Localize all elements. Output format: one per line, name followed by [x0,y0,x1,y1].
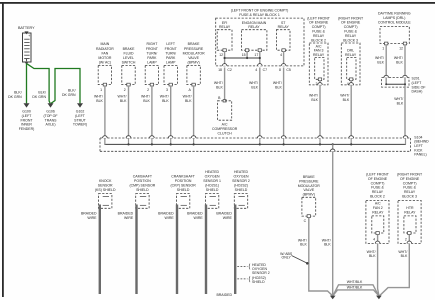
svg-text:WIRE: WIRE [165,216,175,220]
svg-text:CONTROL MODULE: CONTROL MODULE [378,21,412,25]
svg-text:4: 4 [347,82,349,86]
wire stub into S104 at x=193.6 [193,138,195,144]
svg-text:(CMP) SENSOR: (CMP) SENSOR [129,183,155,187]
svg-text:BLK: BLK [396,60,403,64]
svg-text:C5: C5 [286,68,291,72]
svg-text:OF ENGINE: OF ENGINE [309,21,329,25]
wire WHT/BLK DRL pin 12 to splice S201 [404,45,406,76]
svg-text:KNOCK: KNOCK [99,179,112,183]
junction dot on S104 bus at x=193.6 [193,143,195,145]
svg-text:FUSE & RELAY BLOCK 1: FUSE & RELAY BLOCK 1 [239,13,280,17]
svg-text:BRAKE: BRAKE [188,42,201,46]
svg-text:DRL: DRL [347,49,354,53]
svg-text:BLK: BLK [401,254,408,258]
braided wire of heated oxygen sensor 1 (HO2S1) shield [205,205,207,295]
svg-text:BLK: BLK [96,99,103,103]
svg-text:MODULATOR: MODULATOR [183,51,206,55]
connector arc S104 bottom exit [330,149,335,151]
wire WHT/BLK from left front turn/park lamp to splice S104 [170,86,172,136]
svg-text:BLK: BLK [162,99,169,103]
svg-text:15: 15 [242,53,246,57]
svg-text:RIGHT: RIGHT [146,42,158,46]
svg-text:WIRE: WIRE [87,216,97,220]
wire WHT/BLK from lower BPMV to bottom junction [309,218,333,296]
svg-text:18: 18 [218,68,222,72]
svg-text:BLOCK 3: BLOCK 3 [343,38,358,42]
wire stub into S104 at x=128.5 [128,138,130,144]
svg-text:BLK: BLK [216,85,223,89]
junction dot on S104 bus at x=351.2 [350,143,352,145]
svg-text:A/C: A/C [222,123,228,127]
wire WHT/BLK from block 3 to splice S104 [350,81,352,136]
connector arc into S104 at x=170.7 [168,136,173,138]
svg-text:SHIELD: SHIELD [177,188,190,192]
svg-text:8: 8 [279,68,281,72]
svg-text:COMPT): COMPT) [344,25,358,29]
svg-text:LAMP: LAMP [147,61,157,65]
wire stub into S104 at x=170.7 [170,138,172,144]
svg-text:SENSOR 1: SENSOR 1 [203,179,221,183]
connector arc lower block 2 [375,241,380,243]
wire WHT/BLK from lower block 3 to bottom junction [380,234,410,295]
svg-text:SENSOR 2: SENSOR 2 [232,179,250,183]
svg-text:CLUTCH: CLUTCH [217,131,232,135]
svg-text:1: 1 [382,47,384,51]
wire WHT/BLK from lower block 2 to bottom junction [378,234,379,295]
svg-text:4: 4 [373,237,375,241]
wire ENG/IGN MAIN pin 17 down to C7 [259,52,261,65]
svg-text:SHIELD: SHIELD [136,188,149,192]
junction dot on S104 bus at x=151.9 [151,143,153,145]
svg-text:(BPMV): (BPMV) [187,61,199,65]
svg-text:(LEFT FRONT: (LEFT FRONT [366,173,390,177]
svg-text:BLOCK 2: BLOCK 2 [370,195,385,199]
svg-text:OF ENGINE: OF ENGINE [368,177,388,181]
svg-text:PANEL): PANEL) [414,153,426,157]
svg-text:SENSOR: SENSOR [98,183,113,187]
svg-text:RELAY: RELAY [372,190,384,194]
wire stub into S104 at x=151.9 [151,138,153,144]
wire BLK/DK GRN ground strap G106 to G102 [51,69,80,104]
junction dot at EFI wire [224,57,226,59]
connector arc into S104 at x=351.2 [349,136,354,138]
svg-text:SENSOR 2: SENSOR 2 [252,271,270,275]
connector arc lower block 3 [407,241,412,243]
svg-text:MOTOR: MOTOR [98,56,111,60]
svg-text:FAN: FAN [101,51,108,55]
svg-text:2: 2 [405,237,407,241]
svg-text:ONLY: ONLY [282,256,292,260]
svg-text:PARK: PARK [166,56,176,60]
connector arc into S104 at x=320 [318,136,323,138]
svg-text:SHIELD: SHIELD [235,188,248,192]
wire stub into S104 at x=104.9 [104,138,106,144]
wire ST relay pin 4 down to C5 [283,52,285,65]
wire WHT/BLK from C5 to splice S104 [283,68,285,136]
svg-text:RELAY: RELAY [313,34,325,38]
svg-text:+: + [28,34,30,38]
junction dot on S104 bus at x=259.8 [259,143,261,145]
svg-text:FENDER): FENDER) [19,127,35,131]
svg-text:BRAIDED: BRAIDED [216,293,232,297]
connector arc block 2 [318,83,323,85]
splice S201 [382,78,410,88]
wire stub into S104 at x=351.2 [350,138,352,144]
connector arc into S104 at x=128.5 [126,136,131,138]
svg-text:RADIATOR: RADIATOR [96,47,114,51]
svg-text:POSITION: POSITION [175,179,192,183]
off-page arrow junction left [330,296,336,300]
ground G102 [77,103,83,107]
wire WHT/BLK from main radiator fan motor to splice S104 [104,86,106,136]
svg-text:DASH): DASH) [412,90,423,94]
svg-text:FUSE &: FUSE & [344,30,357,34]
wire WHT/BLK exit from S104 going down [332,144,334,294]
svg-text:DK GRN: DK GRN [62,93,76,97]
svg-text:TOWER): TOWER) [73,123,87,127]
connector arc into S104 at x=283.6 [281,136,286,138]
svg-text:RELAY: RELAY [372,210,384,214]
connector arc into S104 at x=259.8 [258,136,263,138]
svg-text:RELAY: RELAY [278,25,290,29]
svg-text:BLK: BLK [324,243,331,247]
svg-text:12: 12 [399,47,403,51]
svg-text:(BPMV): (BPMV) [303,192,315,196]
svg-text:RELAY: RELAY [345,53,357,57]
junction dot on S104 bus at x=128.5 [127,143,129,145]
braided wire of crankshaft position (CKP) sensor shield [176,205,178,295]
svg-text:OF ENGINE: OF ENGINE [341,21,361,25]
connector arc block 3 [349,83,354,85]
svg-text:COMPRESSOR: COMPRESSOR [212,127,238,131]
svg-text:STRUT: STRUT [74,118,87,122]
svg-text:BLK: BLK [369,254,376,258]
svg-text:LAMP: LAMP [166,61,176,65]
svg-text:1: 1 [100,88,102,92]
svg-text:RELAY: RELAY [313,53,325,57]
svg-text:RELAY: RELAY [219,25,231,29]
wire BLK/DK GRN battery negative to ground G100 [26,64,28,104]
connector C2 [222,64,227,66]
svg-text:SWITCH: SWITCH [122,61,136,65]
svg-text:FRONT: FRONT [146,47,159,51]
svg-text:TRANS: TRANS [45,118,58,122]
svg-text:BLK: BLK [343,98,350,102]
svg-text:LEFT: LEFT [166,42,175,46]
svg-text:4: 4 [280,53,282,57]
svg-text:CAMSHAFT: CAMSHAFT [133,174,153,178]
svg-text:2: 2 [147,88,149,92]
junction dot on S104 bus at x=283.6 [283,143,285,145]
wire WHT/BLK from C2 to A/C compressor clutch [224,68,226,100]
svg-text:2: 2 [124,88,126,92]
wire EFI relay pin 12 down to C2 [224,52,226,65]
svg-text:(LEFT FRONT: (LEFT FRONT [307,16,331,20]
svg-text:DAYTIME RUNNING: DAYTIME RUNNING [378,11,411,15]
svg-text:COMPT): COMPT) [403,181,417,185]
svg-text:LAMPS (DRL): LAMPS (DRL) [383,16,405,20]
svg-text:BLK: BLK [143,99,150,103]
connector arc into S104 at x=193.6 [191,136,196,138]
svg-text:4: 4 [255,68,257,72]
border frame left edge [2,2,4,297]
svg-text:(CKP) SENSOR: (CKP) SENSOR [170,183,196,187]
svg-text:BLK: BLK [251,85,258,89]
svg-text:COMPT): COMPT) [312,25,326,29]
svg-text:FAN 3: FAN 3 [314,49,324,53]
svg-text:BLK: BLK [185,99,192,103]
svg-text:17: 17 [254,53,258,57]
svg-text:FUSE &: FUSE & [403,186,416,190]
svg-text:DK GRN: DK GRN [8,95,22,99]
connector C7 [258,64,263,66]
junction dot at pin 15 wire [246,57,248,59]
svg-text:RELAY: RELAY [404,190,416,194]
wire WHT/BLK from right front turn/park lamp to splice S104 [151,86,153,136]
svg-text:BLOCK 3: BLOCK 3 [402,195,417,199]
connector arc into S104 at x=104.9 [103,136,108,138]
border frame top edge [0,2,435,4]
svg-text:WIRE: WIRE [223,216,233,220]
svg-text:SHIELD: SHIELD [206,188,219,192]
svg-text:FRONT: FRONT [165,47,178,51]
ground G100 [24,103,30,107]
svg-text:POSITION: POSITION [134,179,151,183]
ground G106 [48,103,54,107]
svg-text:BLK: BLK [120,99,127,103]
svg-text:2: 2 [316,82,318,86]
svg-text:DK GRN: DK GRN [32,95,46,99]
connector C5 [281,64,286,66]
svg-text:BLK: BLK [311,98,318,102]
svg-text:HTR: HTR [406,206,414,210]
braided wire of knock sensor (KS) shield [99,205,101,295]
wire ENG/IGN MAIN pin 15 to junction [246,52,248,58]
svg-text:(W/ AC): (W/ AC) [99,61,111,65]
svg-text:PRESSURE: PRESSURE [184,47,204,51]
wire stub into S104 at x=405.5 [405,138,407,144]
svg-text:OXYGEN: OXYGEN [205,174,220,178]
svg-text:A/C: A/C [375,202,381,206]
svg-text:RELAY: RELAY [345,34,357,38]
wire WHT/BLK from brake fluid level switch to splice S104 [128,86,130,136]
svg-text:BATTERY: BATTERY [18,26,35,30]
svg-text:C7: C7 [263,68,268,72]
off-page arrow junction right [376,296,382,300]
svg-text:FRONT: FRONT [20,118,33,122]
svg-text:(HO2S1): (HO2S1) [205,183,219,187]
connector arc into S104 at x=151.9 [150,136,155,138]
svg-text:(HO2S2): (HO2S2) [234,183,248,187]
junction dot on S104 bus at x=170.7 [170,143,172,145]
wire junction bus inside block 1 [225,57,260,59]
svg-text:COMPT): COMPT) [371,181,385,185]
wire stub into S104 at x=259.8 [259,138,261,144]
svg-text:TURN/: TURN/ [165,51,176,55]
svg-text:WIRE: WIRE [124,216,134,220]
svg-text:FAN 2: FAN 2 [373,206,383,210]
wire stub into S104 at x=283.6 [283,138,285,144]
junction dot on S104 bus at x=320 [319,143,321,145]
svg-text:BLK: BLK [397,101,404,105]
wire bus inside splice S104 [105,139,406,145]
junction dot at pin 17 wire [259,57,261,59]
svg-text:12: 12 [219,53,223,57]
svg-text:(RIGHT FRONT: (RIGHT FRONT [338,16,364,20]
wire WHT/BLK upper run between junctions [333,285,378,295]
svg-text:3: 3 [166,88,168,92]
wire BLK/DK GRN battery branch to ground G106 [27,64,50,104]
wire WHT/BLK from C7 to splice S104 [259,68,261,136]
svg-text:HEATED: HEATED [205,170,219,174]
svg-text:BLK: BLK [300,243,307,247]
svg-text:BLOCK 2: BLOCK 2 [311,38,326,42]
junction dot on S104 bus at x=332.7 [332,143,334,145]
svg-text:BLK: BLK [275,85,282,89]
connector arc into S104 at x=405.5 [403,136,408,138]
svg-text:PARK: PARK [147,56,157,60]
braided wire of camshaft position (CMP) sensor shield [135,205,137,295]
wire WHT/BLK from brake pressure modulator valve (top) to splice S104 [193,86,195,136]
wire WHT/BLK DRL pin 1 to splice S201 [385,45,387,76]
svg-text:RELAY: RELAY [248,25,260,29]
svg-text:CRANKSHAFT: CRANKSHAFT [171,174,196,178]
svg-text:OF ENGINE: OF ENGINE [400,177,420,181]
svg-text:MAIN: MAIN [101,42,110,46]
label heated oxygen sensor 2 (HO2S2) shield pointer [237,266,247,268]
svg-text:TURN/: TURN/ [147,51,158,55]
svg-text:OXYGEN: OXYGEN [234,174,249,178]
svg-text:WHT/BLK: WHT/BLK [347,286,363,290]
svg-text:(KS) SHIELD: (KS) SHIELD [95,188,116,192]
svg-text:A/C: A/C [316,44,322,48]
svg-text:BLK: BLK [377,60,384,64]
svg-text:VALVE: VALVE [188,56,199,60]
svg-text:FUSE &: FUSE & [312,30,325,34]
svg-text:AXLE): AXLE) [45,123,55,127]
svg-text:RELAY: RELAY [404,210,416,214]
svg-text:C2: C2 [227,68,232,72]
svg-text:WHT/BLK: WHT/BLK [347,280,363,284]
wire stub into S104 at x=320 [319,138,321,144]
svg-text:(RIGHT FRONT: (RIGHT FRONT [397,173,423,177]
svg-text:LEVEL: LEVEL [123,56,134,60]
svg-text:HEATED: HEATED [234,170,248,174]
wire WHT/BLK lower run between junctions [333,290,379,296]
svg-text:FUSE &: FUSE & [371,186,384,190]
svg-text:SHIELD: SHIELD [252,280,265,284]
svg-text:BRAKE: BRAKE [123,47,136,51]
wire WHT/BLK from block 2 to splice S104 [319,81,321,136]
splice S104 dashed box [100,138,411,151]
svg-text:FLUID: FLUID [123,51,134,55]
braided wire of heated oxygen sensor 2 (HO2S2) shield [234,205,236,295]
svg-text:WIRE: WIRE [194,216,204,220]
